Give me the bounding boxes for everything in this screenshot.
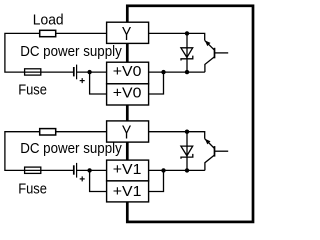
terminal box +V1 (upper) xyxy=(107,160,149,181)
node: battery junction 1 xyxy=(87,70,91,74)
wire: supply drop to lower +V1 terminal xyxy=(90,170,107,191)
svg-text:Y: Y xyxy=(122,122,132,143)
svg-text:DC power supply: DC power supply xyxy=(20,141,122,157)
wire: battery to +V0 terminal xyxy=(77,71,107,73)
node: battery junction 2 xyxy=(87,168,91,172)
diode D1 (zener) xyxy=(181,33,193,72)
wire: Y row to transistor emitter corner xyxy=(149,33,205,40)
svg-text:Load: Load xyxy=(33,13,64,29)
fuse F1 xyxy=(25,69,41,75)
battery DC power supply 2 xyxy=(74,163,77,178)
resistor load (circuit 2) xyxy=(40,129,56,135)
wire: Y row to transistor emitter corner (circuit 2) xyxy=(149,132,205,139)
transistor Q1 xyxy=(205,40,229,72)
svg-text:+V0: +V0 xyxy=(113,85,142,102)
wire: battery to +V1 terminal xyxy=(77,169,107,171)
node: +V1 row junction xyxy=(161,168,165,172)
wire: lower +V0 up to +V0 row xyxy=(149,72,164,94)
node: diode cathode 1 xyxy=(185,70,189,74)
svg-text:Y: Y xyxy=(122,23,132,44)
transistor Q2 xyxy=(205,139,229,171)
wire: load loop left (Y row to supply row) xyxy=(5,33,107,72)
svg-text:+V0: +V0 xyxy=(113,63,142,80)
PLC unit outline (thick box) xyxy=(127,6,253,222)
wire: load loop left (Y row to supply row, circuit 2) xyxy=(5,132,107,171)
terminal box +V1 (lower) xyxy=(107,181,149,202)
battery DC power supply 1 xyxy=(74,65,77,80)
terminal box +V0 (lower) xyxy=(107,84,149,105)
svg-text:+V1: +V1 xyxy=(113,161,142,178)
wire: supply drop to lower +V0 terminal xyxy=(90,72,107,94)
terminal box Y (circuit 2) xyxy=(107,121,149,142)
svg-text:Fuse: Fuse xyxy=(18,181,47,197)
svg-text:DC power supply: DC power supply xyxy=(20,44,122,60)
wire: +V1 row to collector corner xyxy=(149,169,205,171)
svg-text:Fuse: Fuse xyxy=(18,83,47,99)
resistor load (circuit 1) xyxy=(40,30,56,36)
node: +V0 row junction xyxy=(161,70,165,74)
diode D2 (zener) xyxy=(181,132,193,171)
node: diode cathode 2 xyxy=(185,168,189,172)
wire: lower +V1 up to +V1 row xyxy=(149,170,164,191)
label + (battery 2 polarity) xyxy=(80,176,85,181)
svg-text:+V1: +V1 xyxy=(113,183,142,200)
terminal box Y (circuit 1) xyxy=(107,22,149,43)
node: Y row / diode anode 1 xyxy=(185,31,189,35)
label + (battery 1 polarity) xyxy=(80,78,85,83)
fuse F2 xyxy=(25,167,41,173)
terminal box +V0 (upper) xyxy=(107,62,149,84)
wire: +V0 row to collector corner xyxy=(149,71,205,73)
node: Y row / diode anode 2 xyxy=(185,130,189,134)
